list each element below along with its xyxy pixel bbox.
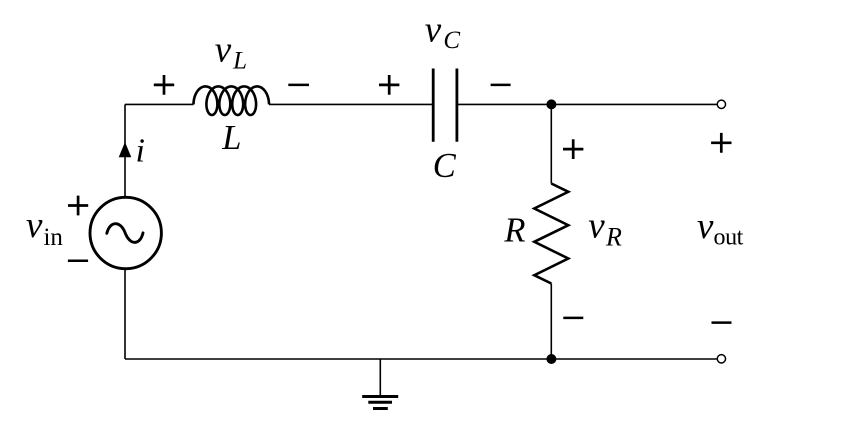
- minus sign at output: [712, 321, 732, 324]
- plus sign left of inductor: [154, 75, 174, 95]
- svg-text:R: R: [503, 211, 525, 249]
- svg-text:vL: vL: [215, 30, 247, 75]
- wire node down to resistor top: [550, 104, 552, 183]
- minus sign at source: [68, 260, 88, 263]
- plus sign at source: [68, 196, 88, 216]
- current arrow i on left wire: [119, 142, 132, 157]
- wire left vertical from top corner down to source top: [124, 104, 126, 197]
- plus sign left of capacitor: [379, 75, 399, 95]
- plus sign at output: [711, 133, 731, 153]
- node junction dot top: [546, 99, 556, 109]
- svg-text:vC: vC: [425, 10, 461, 55]
- wire inductor to capacitor: [269, 103, 432, 105]
- wire source bottom to bottom-left corner: [124, 269, 126, 360]
- minus sign right of capacitor: [491, 84, 511, 87]
- voltage source Vin circle: [90, 197, 161, 268]
- wire top-left horizontal from source corner to inductor: [125, 103, 194, 105]
- sine wave inside source: [107, 224, 143, 243]
- capacitor C right plate: [455, 69, 458, 142]
- svg-text:vout: vout: [697, 206, 744, 250]
- capacitor C left plate: [432, 69, 435, 142]
- ground symbol bars: [362, 397, 398, 409]
- wire resistor bottom to bottom node: [550, 284, 552, 360]
- wire capacitor to node: [457, 103, 551, 105]
- wire node to output top terminal: [551, 103, 716, 105]
- ground stem: [379, 359, 381, 396]
- plus sign above resistor: [563, 139, 583, 159]
- svg-text:L: L: [221, 119, 241, 157]
- svg-text:vR: vR: [588, 206, 622, 252]
- svg-text:i: i: [136, 133, 145, 170]
- output terminal bottom (open circle): [717, 355, 725, 363]
- minus sign right of inductor: [288, 84, 309, 87]
- output terminal top (open circle): [717, 100, 725, 108]
- inductor L coil: [194, 86, 270, 115]
- svg-text:vin: vin: [26, 205, 63, 251]
- wire bottom horizontal: [125, 358, 717, 360]
- resistor R zigzag: [534, 184, 568, 284]
- minus sign below resistor: [563, 317, 583, 320]
- svg-text:C: C: [433, 147, 457, 185]
- node junction dot bottom: [546, 354, 556, 364]
